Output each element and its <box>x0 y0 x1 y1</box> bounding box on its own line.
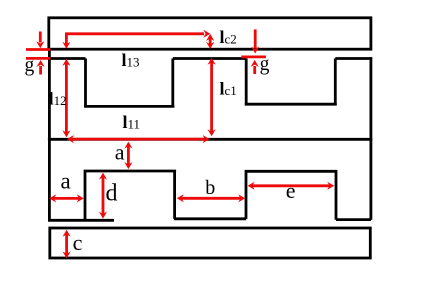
dimension c shaft <box>65 234 68 254</box>
svg-text:l11: l11 <box>123 112 141 132</box>
arrowhead right g up <box>251 60 259 67</box>
dimension d shaft <box>102 177 105 214</box>
dimension l12 shaft <box>65 64 68 133</box>
arrowhead l13 left down <box>62 42 70 49</box>
svg-text:l12: l12 <box>49 88 67 108</box>
dimension a upper shaft <box>127 146 130 165</box>
dimension l13 line <box>66 34 204 44</box>
notch 2 <box>245 59 337 105</box>
arrowhead b left <box>177 194 184 202</box>
svg-text:b: b <box>205 177 215 199</box>
arrowhead a lower left <box>49 194 56 202</box>
dimension b shaft <box>181 197 240 200</box>
arrowhead lc1 down <box>208 129 216 136</box>
arrowhead l12 up <box>62 59 70 66</box>
svg-text:c: c <box>73 230 83 255</box>
arrowhead c up <box>63 230 71 237</box>
arrowhead left g down <box>36 41 44 48</box>
dimension lc1 shaft <box>210 63 213 132</box>
top conductor bar <box>49 18 371 49</box>
left g lower arrow shaft <box>39 66 42 75</box>
arrowhead left g up <box>37 60 45 67</box>
right g tick <box>241 56 266 59</box>
bottom conductor bar <box>50 228 371 258</box>
arrowhead d up <box>99 173 107 180</box>
left wall <box>48 49 51 221</box>
svg-text:lc2: lc2 <box>220 27 237 47</box>
arrowhead l11 right <box>203 135 210 143</box>
arrowhead d down <box>99 212 107 219</box>
svg-text:e: e <box>286 178 296 203</box>
arrowhead lc2 down <box>206 42 214 49</box>
dimension l11 shaft <box>72 138 205 141</box>
left g tick bottom <box>26 57 50 60</box>
svg-text:d: d <box>106 181 118 207</box>
svg-text:g: g <box>25 55 35 76</box>
arrowhead e left <box>248 182 255 190</box>
svg-text:a: a <box>61 168 71 193</box>
svg-text:a: a <box>115 140 125 165</box>
arrowhead a upper up <box>124 142 132 149</box>
svg-text:g: g <box>260 54 270 75</box>
right g upper arrow shaft <box>254 29 257 48</box>
arrowhead e right <box>327 182 334 190</box>
floor segments <box>48 219 371 221</box>
arrowhead l13 right <box>203 30 210 38</box>
arrowhead l12 down <box>62 130 70 137</box>
svg-text:l13: l13 <box>122 50 140 70</box>
arrowhead b right <box>238 194 245 202</box>
divider line <box>48 138 372 141</box>
middle slab top edge segments <box>48 57 372 60</box>
left g tick top <box>26 48 50 51</box>
mesa 1 <box>84 171 177 220</box>
arrowhead lc2 up <box>206 34 214 41</box>
svg-text:lc1: lc1 <box>220 79 237 99</box>
left g upper arrow shaft <box>39 32 42 43</box>
arrowhead a upper down <box>124 162 132 169</box>
notch 1 <box>84 59 174 107</box>
arrowhead c down <box>63 251 71 258</box>
arrowhead right g down <box>251 47 259 54</box>
dimension lc2 shaft <box>209 38 212 45</box>
dimension a lower shaft <box>54 197 79 200</box>
dimension e shaft <box>252 184 330 187</box>
arrowhead l11 left <box>67 135 74 143</box>
arrowhead a lower right <box>77 194 84 202</box>
right wall <box>369 57 372 220</box>
arrowhead lc1 up <box>208 58 216 65</box>
mesa 2 <box>245 171 338 219</box>
right g lower arrow shaft <box>253 66 256 74</box>
